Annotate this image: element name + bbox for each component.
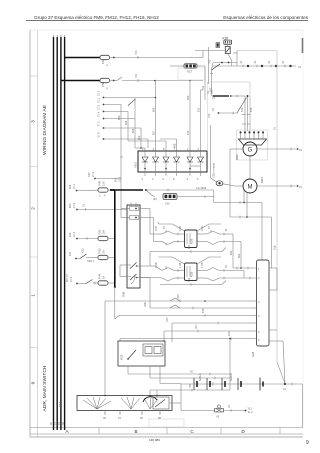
svg-text:37.4: 37.4 xyxy=(72,231,76,237)
svg-text:A28: A28 xyxy=(251,351,255,357)
svg-text:FM1: FM1 xyxy=(98,229,102,235)
svg-text:609: 609 xyxy=(186,95,190,100)
svg-text:37.1: 37.1 xyxy=(72,183,76,189)
svg-text:610: 610 xyxy=(186,130,190,135)
svg-text:V5: V5 xyxy=(216,415,220,419)
svg-text:606: 606 xyxy=(143,302,147,307)
svg-text:1.0B: 1.0B xyxy=(178,226,182,232)
svg-text:K32: K32 xyxy=(120,354,124,360)
svg-text:31b: 31b xyxy=(273,245,277,250)
svg-text:5A: 5A xyxy=(102,276,106,279)
svg-text:X16: X16 xyxy=(165,202,170,206)
svg-text:603: 603 xyxy=(114,177,118,182)
svg-text:37.4: 37.4 xyxy=(97,111,101,117)
svg-text:X17: X17 xyxy=(187,70,193,74)
svg-text:605: 605 xyxy=(131,128,135,133)
svg-text:G: G xyxy=(248,148,253,154)
svg-text:603: 603 xyxy=(117,115,121,120)
svg-text:X11(+ round): X11(+ round) xyxy=(212,163,216,178)
svg-text:37.3: 37.3 xyxy=(97,104,101,110)
svg-text:M04: M04 xyxy=(260,177,264,183)
svg-text:1.0B: 1.0B xyxy=(200,226,204,232)
svg-text:15A: 15A xyxy=(102,181,106,186)
svg-text:5A: 5A xyxy=(102,250,106,253)
svg-text:606: 606 xyxy=(152,107,156,112)
svg-text:612: 612 xyxy=(240,107,244,112)
svg-text:610: 610 xyxy=(68,232,72,237)
svg-text:604: 604 xyxy=(124,120,128,125)
svg-text:Esquemas eléctricos de los com: Esquemas eléctricos de los componentes xyxy=(223,15,308,20)
svg-text:1.0B: 1.0B xyxy=(154,226,158,232)
svg-text:37.3: 37.3 xyxy=(72,202,76,208)
svg-text:9|X: 9|X xyxy=(153,197,157,201)
svg-text:9: 9 xyxy=(306,440,309,446)
svg-text:37.6: 37.6 xyxy=(118,176,122,182)
svg-text:613: 613 xyxy=(249,107,253,112)
svg-text:607: 607 xyxy=(152,130,156,135)
svg-text:37.5: 37.5 xyxy=(97,121,101,127)
svg-text:604: 604 xyxy=(237,253,241,258)
svg-text:F58: F58 xyxy=(101,81,105,87)
svg-text:617: 617 xyxy=(194,324,198,329)
svg-text:701: 701 xyxy=(134,73,138,78)
svg-text:603: 603 xyxy=(229,250,233,255)
svg-text:S38: S38 xyxy=(122,291,126,297)
svg-text:702: 702 xyxy=(208,59,212,64)
svg-text:31.2: 31.2 xyxy=(248,410,254,414)
svg-text:611: 611 xyxy=(68,251,72,256)
svg-text:Grupo 37 Esquema eléctrico FM9: Grupo 37 Esquema eléctrico FM9, FM12, FH… xyxy=(34,15,159,20)
svg-text:604: 604 xyxy=(187,277,191,282)
svg-text:G02: G02 xyxy=(235,154,239,160)
svg-text:700: 700 xyxy=(134,50,138,55)
svg-text:ADR, MAIN SWITCH: ADR, MAIN SWITCH xyxy=(42,365,48,411)
svg-text:37.5: 37.5 xyxy=(69,276,73,282)
svg-text:X28-1: X28-1 xyxy=(87,259,94,263)
svg-text:FM3: FM3 xyxy=(98,180,102,186)
svg-text:37.1: 37.1 xyxy=(97,90,101,96)
svg-text:S15: S15 xyxy=(58,401,62,407)
svg-text:602: 602 xyxy=(68,184,72,189)
svg-text:CA-2606: CA-2606 xyxy=(196,186,207,190)
svg-text:G01A: G01A xyxy=(198,373,202,381)
svg-text:10A: 10A xyxy=(102,230,106,235)
svg-text:136 084: 136 084 xyxy=(149,438,160,442)
svg-text:VD3: VD3 xyxy=(134,162,138,168)
svg-text:702: 702 xyxy=(201,85,205,90)
svg-text:FM2: FM2 xyxy=(98,248,102,254)
svg-text:600: 600 xyxy=(68,203,72,208)
svg-text:602: 602 xyxy=(137,135,141,140)
svg-text:31.1: 31.1 xyxy=(248,407,254,411)
svg-text:F9: F9 xyxy=(101,60,105,64)
svg-text:616: 616 xyxy=(201,308,205,313)
svg-text:G01B: G01B xyxy=(229,373,233,381)
svg-text:1.0B: 1.0B xyxy=(154,262,158,268)
svg-text:1.0B: 1.0B xyxy=(200,262,204,268)
svg-text:WIRING DIAGRAM AE: WIRING DIAGRAM AE xyxy=(42,104,48,155)
svg-text:FM4: FM4 xyxy=(98,273,102,279)
svg-text:1.0B: 1.0B xyxy=(178,262,182,268)
svg-text:611: 611 xyxy=(197,107,201,112)
svg-text:K25: K25 xyxy=(81,248,85,253)
svg-text:37.2: 37.2 xyxy=(91,171,95,177)
svg-text:M: M xyxy=(248,185,253,191)
svg-text:B: B xyxy=(134,429,137,434)
svg-text:615: 615 xyxy=(176,294,180,299)
svg-text:603: 603 xyxy=(187,244,191,249)
svg-text:16L: 16L xyxy=(210,89,214,94)
svg-text:15A: 15A xyxy=(227,331,231,336)
svg-text:607: 607 xyxy=(165,317,169,322)
svg-text:37.2: 37.2 xyxy=(97,97,101,103)
svg-text:607.37: 607.37 xyxy=(65,274,69,282)
svg-text:37.6: 37.6 xyxy=(97,132,101,138)
svg-text:440: 440 xyxy=(87,172,91,177)
